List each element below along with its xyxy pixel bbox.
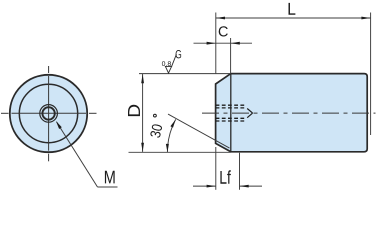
- dimension Lf line left: [193, 185, 216, 187]
- side view body outline: [216, 74, 368, 152]
- dimension C line with outside arrows: [194, 42, 253, 44]
- chamfer angle extension line: [168, 114, 230, 148]
- dimension L extension line left: [215, 13, 217, 74]
- dimension Lf arrow right: [240, 185, 249, 188]
- dimension D line: [142, 74, 144, 152]
- label D (rotated): [128, 105, 140, 116]
- dimension L extension line right: [370, 13, 372, 136]
- side view axis centerline: [202, 112, 376, 114]
- drill point cone: [247, 109, 252, 118]
- leader line for M: [57, 122, 118, 187]
- angle arc arrow bottom: [166, 144, 169, 152]
- front view centerline inside circle: [12, 76, 87, 151]
- angle arc arrow top: [170, 119, 175, 127]
- dimension L arrow left: [216, 17, 225, 20]
- tapped hole drill circle: [42, 107, 54, 119]
- dimension D extension top / G base line: [139, 73, 231, 75]
- tapped hole thread circle: [40, 105, 58, 123]
- front view horizontal centerline: [1, 112, 97, 114]
- front view outer circle (part diameter): [10, 75, 87, 152]
- dimension C extension right: [230, 38, 232, 73]
- label Lf: [220, 170, 230, 183]
- dimension C arrow left: [207, 42, 216, 45]
- surface finish symbol triangle: [165, 66, 171, 73]
- label G: [176, 50, 182, 58]
- dimension C arrow right: [231, 42, 240, 45]
- dimension L line: [216, 17, 371, 19]
- dimension Lf extension right: [239, 153, 241, 190]
- dimension D extension bottom: [129, 151, 231, 153]
- surface finish symbol arm: [172, 54, 177, 66]
- label 30 deg (rotated): [150, 124, 163, 139]
- label L: [289, 3, 296, 15]
- leader arrowhead: [56, 121, 62, 129]
- front view vertical centerline: [48, 66, 50, 161]
- label M: [105, 171, 115, 184]
- dimension D arrow bottom: [141, 143, 144, 152]
- dimension Lf arrow left: [207, 185, 216, 188]
- label 0.8: [162, 61, 171, 66]
- chamfer edge line: [230, 74, 232, 152]
- chamfer angle arc: [167, 119, 175, 152]
- label C: [219, 26, 228, 36]
- dimension L arrow right: [361, 17, 370, 20]
- tapped hole hidden lines (drill minor): [216, 108, 247, 118]
- dimension Lf extension left: [215, 147, 217, 190]
- dimension D arrow top: [141, 74, 144, 83]
- degree mark of 30 deg label: [154, 114, 157, 117]
- front view chamfer circle: [19, 84, 77, 142]
- tapped hole hidden lines (thread major): [216, 105, 247, 121]
- dimension Lf line right: [240, 185, 263, 187]
